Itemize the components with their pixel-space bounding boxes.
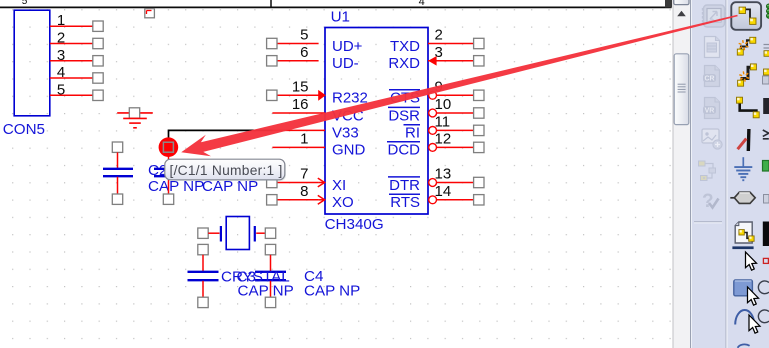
svg-text:UD+: UD+ <box>332 38 363 55</box>
sheet border right end block <box>665 0 672 8</box>
svg-text:GND: GND <box>332 142 366 159</box>
U1 pin 9 (CTS) right <box>389 78 484 106</box>
toolbar icon: place rectangle <box>734 280 759 305</box>
U1 pin 14 (RTS) right <box>389 183 484 211</box>
svg-text:CAP NP: CAP NP <box>238 283 294 300</box>
crystal Y1 body <box>221 217 255 250</box>
svg-text:14: 14 <box>435 183 452 200</box>
toolbar icon: VR report (disabled) <box>703 98 720 119</box>
svg-text:5: 5 <box>57 81 65 98</box>
svg-text:4: 4 <box>419 0 425 8</box>
toolbar icon: ERC check (disabled) <box>702 191 719 212</box>
U1 pin 7 (XI) left <box>267 166 347 194</box>
svg-text:XO: XO <box>332 194 354 211</box>
svg-text:DTR: DTR <box>389 177 420 194</box>
CON5 pin 1 <box>50 12 103 31</box>
svg-text:CH340G: CH340G <box>325 216 384 233</box>
tooltip [/C1/1 Number:1 ] <box>165 159 286 181</box>
scrollbar top button (clipped) <box>674 0 689 5</box>
toolbar icon: place net label (octagon) <box>730 192 755 203</box>
toolbar icon: place sheet symbol <box>735 222 754 243</box>
toolbar icon: edit component (disabled) <box>702 5 726 27</box>
svg-text:DCD: DCD <box>388 142 421 159</box>
crystal right pin <box>256 228 275 238</box>
scrollbar up arrow <box>677 11 686 16</box>
svg-text:3: 3 <box>435 44 443 61</box>
toolbar left column separator <box>694 222 722 223</box>
U1 pin 4 (V33) left <box>272 125 358 142</box>
U1 designator label <box>331 9 350 26</box>
capacitor C2 designator label <box>148 162 167 179</box>
toolbar icon: place ellipse (clipped bottom) <box>738 344 750 347</box>
ground symbol (earth) near CON5 <box>117 108 153 128</box>
svg-text:5: 5 <box>22 0 28 7</box>
svg-text:5: 5 <box>300 27 308 44</box>
svg-text:RTS: RTS <box>390 194 420 211</box>
sheet border top line <box>0 6 672 8</box>
svg-text:V33: V33 <box>332 125 359 142</box>
capacitor C3 <box>188 244 219 307</box>
toolbar panel background <box>690 0 769 348</box>
svg-text:1: 1 <box>300 130 308 147</box>
svg-text:2: 2 <box>57 30 65 47</box>
C4 designator label <box>304 268 323 285</box>
capacitor C4 <box>255 244 286 307</box>
CON5 pin 3 <box>50 47 103 66</box>
toolbar icon: place power port (ground) <box>734 157 752 180</box>
op-amp/IC U1 body <box>325 28 428 215</box>
toolbar icon: cursor select <box>746 252 757 270</box>
U1 pin 3 (RXD) right <box>388 44 484 72</box>
svg-text:10: 10 <box>435 96 452 113</box>
capacitor C1 plates and leads <box>154 152 184 204</box>
toolbar icon: place part (red/black lines) <box>738 129 749 151</box>
annotation arrow pointing to C1 pin 1 <box>181 15 738 157</box>
svg-text:VR: VR <box>705 108 715 115</box>
svg-text:?: ? <box>702 191 714 212</box>
clipped toolbar column icons at right edge <box>767 4 769 18</box>
toolbar icon: place arc <box>735 310 760 333</box>
svg-text:16: 16 <box>292 96 309 113</box>
connector CON5 body <box>14 10 50 116</box>
crystal value label CRYSTAL (overlapping C3 designator) <box>221 268 290 285</box>
svg-text:U1: U1 <box>331 9 350 26</box>
svg-text:2: 2 <box>435 27 443 44</box>
U1 pin 6 (UD-) left <box>267 44 359 72</box>
svg-text:[/C1/1 Number:1 ]: [/C1/1 Number:1 ] <box>170 163 283 178</box>
CON5 pin 4 <box>50 64 103 83</box>
svg-text:12: 12 <box>435 130 452 147</box>
U1 pin 11 (RI) right <box>404 113 485 141</box>
C3 value label CAP NP <box>238 283 294 300</box>
capacitor C2 <box>103 142 133 204</box>
sheet zone number 5 <box>22 0 28 7</box>
scrollbar track <box>673 0 690 348</box>
toolbar icon: place bus <box>737 37 756 55</box>
U1 part number label CH340G <box>325 216 384 233</box>
toolbar separator (navy) <box>732 246 753 249</box>
toolbar icon: place wire (selected) <box>731 2 761 30</box>
svg-text:4: 4 <box>57 64 65 81</box>
capacitor C2 value label CAP NP <box>148 178 204 195</box>
svg-text:RI: RI <box>405 125 420 142</box>
toolbar icon: place bus entry <box>737 97 760 118</box>
svg-text:8: 8 <box>300 183 308 200</box>
U1 pin 1 (GND) left <box>272 130 365 158</box>
U1 pin 8 (XO) left <box>267 183 354 211</box>
U1 pin 2 (TXD) right <box>390 27 484 55</box>
svg-text:15: 15 <box>292 78 309 95</box>
crystal left pin <box>198 228 220 238</box>
wire from C1 pin 1 to U1 V33 <box>169 130 273 146</box>
toolbar icon: add sheet/picture (disabled) <box>702 129 722 149</box>
connector CON5 label <box>3 121 45 138</box>
svg-text:6: 6 <box>300 44 308 61</box>
U1 pin 13 (DTR) right <box>388 166 484 194</box>
clipped symbol near top (pin box with red mark) <box>145 9 155 18</box>
svg-text:CAP NP: CAP NP <box>304 283 360 300</box>
sheet zone number 4 <box>419 0 425 8</box>
U1 pin 12 (DCD) right <box>387 130 484 158</box>
svg-text:1: 1 <box>57 12 65 29</box>
svg-text:TXD: TXD <box>390 38 420 55</box>
toolbar icon: place signal harness <box>738 64 757 86</box>
svg-text:DSR: DSR <box>388 107 420 124</box>
sheet zone tick <box>270 0 272 7</box>
U1 pin 16 (VCC) left <box>272 96 363 124</box>
scrollbar thumb <box>674 54 689 125</box>
svg-text:CON5: CON5 <box>3 121 45 138</box>
capacitor C1 value label CAP NP <box>202 178 258 195</box>
U1 pin 10 (DSR) right <box>388 96 484 124</box>
svg-text:CR: CR <box>704 76 714 83</box>
svg-text:XI: XI <box>332 177 346 194</box>
svg-text:13: 13 <box>435 166 452 183</box>
svg-text:RXD: RXD <box>388 55 420 72</box>
U1 pin 5 (UD+) left <box>267 27 363 55</box>
svg-text:11: 11 <box>435 113 451 130</box>
C4 value label CAP NP <box>304 283 360 300</box>
toolbar icon: netlist document (disabled) <box>705 37 720 58</box>
CON5 pin 5 <box>50 81 103 100</box>
svg-text:7: 7 <box>300 166 308 183</box>
toolbar icon: CR report (disabled) <box>703 66 720 87</box>
svg-text:3: 3 <box>57 47 65 64</box>
toolbar icon: hierarchy tree (disabled) <box>699 161 716 181</box>
svg-text:UD-: UD- <box>332 55 359 72</box>
U1 pin 15 (R232) left <box>267 78 368 106</box>
CON5 pin 2 <box>50 30 103 49</box>
highlighted pin C1 pin 1 (red circle) <box>159 137 179 157</box>
